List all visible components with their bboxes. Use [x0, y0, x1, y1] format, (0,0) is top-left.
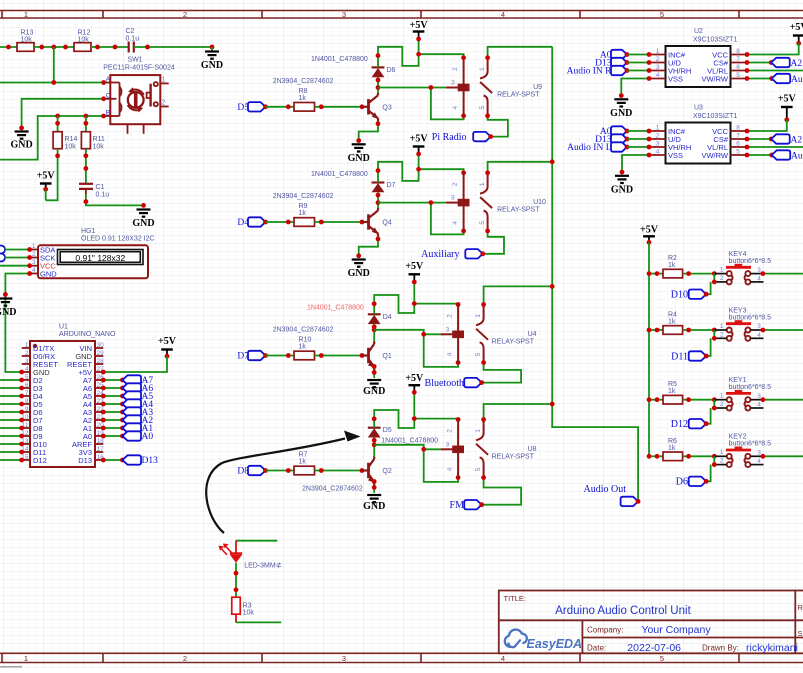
svg-text:18: 18: [97, 438, 105, 445]
svg-text:LED-3MM⊄: LED-3MM⊄: [244, 562, 282, 570]
pushbutton KEY3: [714, 307, 771, 340]
svg-text:8: 8: [25, 398, 29, 405]
svg-text:HG1: HG1: [81, 228, 96, 235]
resistor R7: [294, 466, 315, 475]
wire D5 to R8: [266, 106, 295, 108]
OLED display HG1: [30, 228, 155, 279]
svg-text:ARDUINO_NANO: ARDUINO_NANO: [59, 331, 116, 338]
pushbutton KEY1: [714, 377, 771, 410]
wire R2 to KEY4: [683, 273, 715, 275]
svg-text:R9: R9: [299, 203, 308, 210]
svg-text:10k: 10k: [21, 37, 33, 44]
svg-text:D10: D10: [671, 290, 688, 301]
svg-text:4: 4: [656, 149, 660, 156]
wire collector to relay pin3/pin4: [374, 330, 440, 335]
svg-text:4: 4: [501, 10, 505, 19]
svg-text:Bluetooth: Bluetooth: [425, 378, 464, 389]
svg-text:GND: GND: [348, 153, 370, 164]
svg-text:7: 7: [736, 56, 740, 63]
svg-text:+5V: +5V: [405, 261, 424, 272]
svg-text:5: 5: [475, 352, 482, 356]
svg-text:TITLE:: TITLE:: [504, 594, 527, 603]
net label D12: [689, 419, 707, 428]
net label Audio out (U3): [747, 154, 772, 156]
svg-text:D6: D6: [387, 67, 396, 74]
wire C1 to ground: [85, 189, 87, 194]
net label D13: [103, 459, 122, 461]
wire collector to relay pin3/pin4: [378, 202, 446, 204]
power +5V (Q4 block): [410, 134, 429, 157]
svg-text:Audio IN L: Audio IN L: [567, 143, 612, 153]
wire Q2 emitter to ground: [373, 485, 375, 493]
wire relay pin5 to FM flag: [482, 478, 521, 505]
svg-text:KEY2: KEY2: [729, 434, 747, 441]
wire +5V to relay pin2: [414, 303, 458, 306]
svg-text:U9: U9: [533, 84, 542, 91]
svg-text:1: 1: [479, 182, 486, 186]
svg-text:17: 17: [97, 446, 105, 453]
resistor R13: [17, 43, 34, 52]
net port SDA: [0, 246, 5, 254]
transistor Q3 2N3904: [273, 78, 392, 124]
svg-text:8: 8: [736, 125, 740, 132]
svg-text:1k: 1k: [668, 319, 676, 326]
svg-text:4: 4: [656, 72, 660, 79]
svg-text:1: 1: [32, 243, 36, 250]
svg-text:U1: U1: [59, 324, 68, 331]
transistor Q2 2N3904: [302, 457, 392, 493]
diode D7 1N4001: [311, 171, 396, 192]
svg-text:1k: 1k: [299, 459, 307, 466]
svg-text:2022-07-06: 2022-07-06: [627, 642, 681, 654]
wire relay pin5 to Auxiliary flag: [483, 231, 504, 254]
relay U4 RELAY-SPST: [441, 305, 537, 363]
svg-text:1N4001_C478800: 1N4001_C478800: [381, 438, 438, 445]
net label A6: [103, 387, 122, 389]
svg-text:1: 1: [475, 429, 482, 433]
resistor R3: [232, 597, 241, 614]
relay U9 RELAY-SPST: [446, 58, 542, 116]
wire D5 cathode to +5V staircase: [374, 392, 414, 428]
svg-text:VW/RW: VW/RW: [701, 151, 728, 160]
LED LED-3MM: [218, 541, 281, 570]
svg-text:4: 4: [757, 458, 761, 465]
wire relay pin5 to Pi Radio flag: [488, 116, 508, 137]
wire relay pin1 to bus: [488, 162, 553, 173]
wire R8 to Q3 base: [315, 106, 363, 108]
EasyEDA logo: [505, 630, 582, 651]
svg-text:2: 2: [32, 251, 36, 258]
wire relay pin1 to bus: [484, 404, 553, 420]
svg-text:4: 4: [446, 352, 453, 356]
wire KEY4 pin2/flag D10: [713, 274, 715, 282]
svg-text:U2: U2: [694, 28, 703, 35]
wire VL/RL (U3) to edge: [747, 146, 803, 148]
wire VCC (U2): [747, 43, 799, 54]
svg-text:2: 2: [452, 67, 459, 71]
svg-text:Audio Out: Audio Out: [791, 151, 803, 161]
wire relay pin1 to bus: [484, 286, 553, 304]
svg-text:GND: GND: [611, 184, 633, 195]
resistor R6: [649, 455, 663, 457]
svg-text:6: 6: [736, 141, 740, 148]
wire D5 anode to collector: [373, 438, 375, 457]
wire D6 cathode to +5V staircase: [378, 39, 419, 68]
svg-text:C: C: [106, 92, 111, 99]
svg-text:SW1: SW1: [127, 57, 142, 64]
wire R5 to KEY1: [683, 399, 715, 401]
svg-text:PEC11R-4015F-S0024: PEC11R-4015F-S0024: [103, 65, 175, 72]
svg-text:X9C103SIZT1: X9C103SIZT1: [693, 113, 737, 120]
svg-text:1: 1: [475, 314, 482, 318]
svg-text:29: 29: [97, 350, 105, 357]
wire R3 bottom: [235, 614, 237, 622]
wire Q3 emitter to ground: [359, 121, 378, 141]
sheet border bottom: [0, 653, 803, 662]
svg-text:VW/RW: VW/RW: [701, 74, 728, 83]
svg-text:GND: GND: [201, 60, 223, 71]
svg-text:8: 8: [736, 48, 740, 55]
svg-text:KEY4: KEY4: [729, 251, 747, 258]
svg-text:Arduino Audio Control Unit: Arduino Audio Control Unit: [555, 605, 691, 617]
svg-text:6: 6: [736, 64, 740, 71]
ground (U2): [610, 99, 632, 119]
svg-text:VSS: VSS: [668, 151, 683, 160]
svg-text:R2: R2: [668, 255, 677, 262]
svg-text:4: 4: [452, 106, 459, 110]
svg-text:1: 1: [656, 48, 660, 55]
svg-text:R13: R13: [21, 30, 34, 37]
svg-text:C1: C1: [96, 184, 105, 191]
IC U2 X9C103SIZT1: [649, 28, 747, 87]
svg-text:3: 3: [342, 10, 346, 19]
capacitor C2: [129, 42, 134, 53]
svg-text:A0: A0: [142, 432, 154, 442]
wire C2-GND: [134, 46, 212, 48]
svg-text:28: 28: [97, 358, 105, 365]
svg-text:3: 3: [25, 358, 29, 365]
diode D5 1N4001: [368, 427, 438, 445]
svg-text:Q2: Q2: [382, 468, 391, 475]
svg-text:9: 9: [25, 406, 29, 413]
wire R4 to KEY3: [683, 329, 715, 331]
svg-text:2: 2: [720, 401, 724, 408]
transistor Q4 2N3904: [273, 193, 392, 239]
relay U10 RELAY-SPST: [446, 173, 546, 231]
svg-text:Q3: Q3: [382, 104, 391, 111]
svg-text:GND: GND: [363, 501, 385, 512]
net label Auxiliary (output): [465, 249, 483, 258]
svg-text:GND: GND: [348, 268, 370, 279]
svg-text:D12: D12: [33, 456, 47, 465]
svg-text:X9C103SIZT1: X9C103SIZT1: [693, 37, 737, 44]
wire junction column: [53, 47, 55, 83]
capacitor C1: [79, 184, 93, 189]
net label Bluetooth (output): [464, 378, 482, 387]
wire encoder B rail: [0, 116, 104, 160]
svg-text:U4: U4: [528, 331, 537, 338]
svg-text:GND: GND: [10, 140, 32, 151]
svg-text:0.1u: 0.1u: [126, 36, 140, 43]
svg-text:3: 3: [451, 80, 455, 87]
net label A0: [103, 435, 122, 437]
IC U1 ARDUINO_NANO: [21, 324, 116, 468]
svg-text:RELAY-SPST: RELAY-SPST: [492, 338, 535, 345]
svg-text:5: 5: [736, 72, 740, 79]
resistor R4: [649, 329, 663, 331]
wire VSS to ground (U2): [621, 79, 649, 96]
svg-text:rickykimani: rickykimani: [746, 642, 798, 654]
svg-text:Your Company: Your Company: [642, 624, 712, 636]
svg-text:D13: D13: [78, 456, 92, 465]
svg-text:1k: 1k: [668, 445, 676, 452]
svg-text:RELAY-SPST: RELAY-SPST: [492, 453, 535, 460]
svg-text:FM: FM: [450, 500, 465, 511]
svg-text:10k: 10k: [93, 144, 105, 151]
wire D4 cathode to +5V staircase: [374, 282, 414, 314]
svg-text:2: 2: [446, 314, 453, 318]
svg-text:Company:: Company:: [587, 625, 623, 634]
svg-text:1: 1: [24, 654, 28, 663]
wire Q1 emitter to ground: [373, 370, 375, 378]
svg-text:5: 5: [660, 10, 664, 19]
wires nano left pins D2-D12: [0, 379, 22, 381]
svg-text:R4: R4: [668, 312, 677, 319]
svg-text:10k: 10k: [78, 37, 90, 44]
resistor R10: [294, 351, 315, 360]
svg-text:2: 2: [720, 331, 724, 338]
power +5V (R14): [37, 171, 56, 192]
wire relay pin1 to bus: [488, 47, 553, 58]
net label Audio out (U2): [747, 78, 772, 80]
wire R12-C2: [91, 46, 128, 48]
svg-text:D12: D12: [671, 419, 688, 430]
net label A1: [103, 427, 122, 429]
svg-text:2: 2: [183, 654, 187, 663]
net label D6: [689, 477, 707, 486]
wire KEY3 pin2/flag D11: [713, 330, 715, 338]
svg-text:1N4001_C478800: 1N4001_C478800: [311, 171, 368, 178]
net label A2 (U2): [747, 62, 771, 64]
svg-text:1N4001_C478800: 1N4001_C478800: [307, 304, 364, 311]
svg-text:2N3904_C2874602: 2N3904_C2874602: [273, 327, 334, 334]
svg-text:5: 5: [660, 654, 664, 663]
svg-text:R5: R5: [668, 381, 677, 388]
svg-text:3: 3: [451, 195, 455, 202]
svg-text:5: 5: [475, 467, 482, 471]
svg-text:1: 1: [25, 342, 29, 349]
wire KEY1 pin3 to edge: [763, 399, 803, 401]
svg-text:3: 3: [656, 64, 660, 71]
svg-text:C2: C2: [126, 28, 135, 35]
svg-text:1: 1: [656, 125, 660, 132]
net label A2: [103, 419, 122, 421]
rotary encoder SW1: [103, 57, 175, 134]
transistor Q1 2N3904: [273, 327, 392, 373]
svg-text:10k: 10k: [65, 144, 77, 151]
wire +5V key rail: [648, 242, 650, 456]
annotation arrow to D5: [206, 439, 345, 534]
svg-text:R10: R10: [299, 337, 312, 344]
svg-text:3: 3: [446, 441, 450, 448]
wire nano +5V: [103, 356, 167, 372]
svg-text:GND: GND: [363, 386, 385, 397]
wire +5V to relay pin2: [419, 54, 464, 58]
net label A4: [103, 403, 122, 405]
wire VSS to ground (U3): [622, 155, 649, 172]
power +5V (nano): [158, 336, 177, 359]
wire D7 to R10: [266, 355, 295, 357]
diode D4 1N4001: [307, 304, 392, 324]
svg-text:1: 1: [720, 449, 724, 456]
wire encoder C to ground: [22, 99, 104, 128]
wire D4 to R9: [266, 221, 295, 223]
wire relay pin5 to Bluetooth flag: [482, 363, 521, 383]
relay U8 RELAY-SPST: [441, 420, 537, 478]
svg-text:D6: D6: [676, 477, 688, 488]
svg-text:7: 7: [25, 390, 29, 397]
power +5V (Q1 block): [405, 261, 424, 285]
svg-text:2N3904_C2874602: 2N3904_C2874602: [302, 486, 363, 493]
title block: [499, 591, 803, 655]
ground (Q3): [348, 144, 370, 164]
svg-text:A2: A2: [791, 59, 803, 69]
svg-text:1k: 1k: [299, 210, 307, 217]
svg-text:R3: R3: [243, 603, 252, 610]
svg-text:0.1u: 0.1u: [96, 192, 110, 199]
svg-text:R: R: [798, 603, 803, 612]
svg-text:Q4: Q4: [382, 220, 391, 227]
ground (U3): [611, 176, 633, 196]
svg-text:10k: 10k: [243, 610, 255, 617]
wire collector to relay pin3/pin4: [378, 87, 446, 89]
power +5V (Q3 block): [410, 20, 429, 41]
wire D4 anode to collector: [373, 324, 375, 341]
svg-text:+5V: +5V: [37, 171, 56, 182]
svg-text:D4: D4: [383, 314, 392, 321]
svg-text:2: 2: [183, 10, 187, 19]
svg-text:6: 6: [25, 382, 29, 389]
svg-text:30: 30: [97, 342, 105, 349]
svg-text:GND: GND: [40, 270, 57, 279]
svg-text:Auxiliary: Auxiliary: [421, 249, 459, 260]
resistor R12: [74, 43, 91, 52]
svg-text:2: 2: [446, 429, 453, 433]
ground (C2): [211, 47, 213, 51]
svg-text:R6: R6: [668, 438, 677, 445]
wire OLED SDA: [5, 249, 30, 251]
power +5V (Q2 block): [405, 373, 424, 395]
resistor R14: [57, 116, 59, 132]
net label FM (output): [464, 500, 482, 509]
svg-text:4: 4: [25, 366, 29, 373]
wire R7 to Q2 base: [315, 470, 363, 472]
resistor R8: [294, 103, 315, 112]
svg-text:4: 4: [757, 275, 761, 282]
svg-text:2: 2: [720, 458, 724, 465]
svg-text:2: 2: [720, 275, 724, 282]
svg-text:R12: R12: [78, 30, 91, 37]
wire KEY3 pin3 to edge: [763, 329, 803, 331]
svg-text:4: 4: [501, 654, 505, 663]
svg-text:+5V: +5V: [778, 94, 797, 105]
svg-text:Q1: Q1: [382, 353, 391, 360]
svg-text:2: 2: [656, 133, 660, 140]
svg-text:R8: R8: [299, 88, 308, 95]
svg-text:2: 2: [162, 100, 166, 107]
svg-text:D7: D7: [387, 182, 396, 189]
svg-text:+5V: +5V: [410, 134, 429, 145]
svg-text:2: 2: [452, 182, 459, 186]
svg-text:A: A: [106, 76, 111, 83]
svg-text:GND: GND: [0, 307, 17, 318]
svg-text:+5V: +5V: [410, 20, 429, 31]
svg-text:B: B: [106, 110, 110, 117]
svg-text:KEY3: KEY3: [729, 307, 747, 314]
svg-text:2N3904_C2874602: 2N3904_C2874602: [273, 193, 334, 200]
wire OLED VCC: [0, 265, 30, 267]
wire KEY2 pin2/flag D6: [713, 456, 715, 464]
resistor R9: [294, 218, 315, 227]
svg-text:1: 1: [720, 323, 724, 330]
wire R11-C1: [85, 149, 87, 184]
wire R6 to KEY2: [683, 455, 715, 457]
net label D10: [689, 290, 707, 299]
ground (C1): [132, 210, 154, 230]
svg-text:D5: D5: [383, 427, 392, 434]
svg-text:2N3904_C2874602: 2N3904_C2874602: [273, 78, 334, 85]
power +5V (keys rail): [640, 225, 659, 245]
svg-text:U3: U3: [694, 105, 703, 112]
svg-text:A2: A2: [791, 135, 803, 145]
net label A3: [103, 411, 122, 413]
svg-text:1: 1: [720, 393, 724, 400]
wire +5V to relay pin2: [414, 418, 458, 421]
svg-text:4: 4: [32, 267, 36, 274]
svg-text:U8: U8: [528, 446, 537, 453]
wire Q4 emitter to ground: [359, 236, 378, 256]
wire net R13 input: [0, 46, 17, 48]
wire D8 to R7: [266, 470, 295, 472]
ground (OLED/nano): [0, 299, 17, 319]
svg-text:KEY1: KEY1: [729, 377, 747, 384]
svg-text:GND: GND: [132, 218, 154, 229]
svg-text:EasyEDA: EasyEDA: [527, 637, 583, 651]
wire collector to relay pin3/pin4: [374, 445, 440, 450]
svg-text:+5V: +5V: [790, 22, 803, 33]
svg-text:1k: 1k: [668, 262, 676, 269]
svg-text:7: 7: [736, 133, 740, 140]
wire encoder A: [0, 82, 104, 84]
diode D6 1N4001: [311, 56, 396, 77]
net label A2 (U3): [747, 138, 771, 140]
svg-text:VSS: VSS: [668, 74, 683, 83]
resistor R11: [85, 116, 87, 132]
svg-text:3: 3: [656, 141, 660, 148]
svg-text:OLED 0.91 128X32 I2C: OLED 0.91 128X32 I2C: [81, 236, 155, 243]
svg-text:Audio Out: Audio Out: [791, 75, 803, 85]
svg-text:5: 5: [736, 149, 740, 156]
wire +5V to relay pin2: [419, 169, 464, 173]
wire VCC (U3): [747, 120, 787, 131]
power +5V (U3): [778, 94, 797, 123]
svg-text:Pi Radio: Pi Radio: [432, 132, 467, 143]
wire bus relay pin1s to Audio Out: [552, 47, 638, 502]
net label A5: [103, 395, 122, 397]
wire LED top: [236, 540, 277, 542]
svg-text:R14: R14: [65, 136, 78, 143]
pushbutton KEY2: [714, 434, 771, 467]
